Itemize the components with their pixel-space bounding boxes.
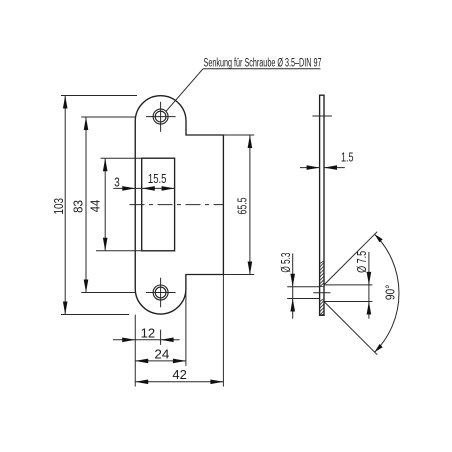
dim 12 extension line (160, 330, 162, 345)
svg-text:Senkung für Schraube Ø 3.5–DIN: Senkung für Schraube Ø 3.5–DIN 97 (204, 58, 322, 70)
dim 15.5 (142, 186, 155, 191)
dim 42 (135, 381, 223, 383)
svg-text:44: 44 (87, 200, 102, 213)
screw hole top (153, 109, 168, 124)
leader underline (203, 68, 321, 70)
right tab edge extension down (185, 275, 187, 366)
dim 103 extension lines (61, 95, 137, 97)
90 deg dimension arc (375, 234, 399, 352)
svg-text:65.5: 65.5 (235, 198, 250, 215)
svg-text:Ø 5.3: Ø 5.3 (278, 253, 293, 273)
svg-text:24: 24 (154, 347, 169, 362)
dim 44 (104, 158, 106, 251)
flange right edge extension down (222, 275, 224, 387)
svg-text:90°: 90° (383, 285, 398, 301)
dashed horizontal centerline (130, 204, 224, 206)
side hole center tick (313, 292, 330, 294)
svg-text:103: 103 (51, 198, 66, 215)
hole lines right (dia 7.5) (324, 284, 372, 286)
svg-text:Ø 7.5: Ø 7.5 (354, 251, 369, 273)
left edge extension down (134, 315, 136, 387)
hatching countersink section (320, 261, 324, 315)
latch cutout (142, 158, 175, 251)
dim dia 7.5 (368, 252, 370, 319)
dim 83 extension lines (81, 116, 135, 118)
svg-text:83: 83 (71, 200, 86, 213)
dim 103 (64, 96, 66, 315)
svg-text:42: 42 (172, 367, 187, 382)
bottom hole centerlines (146, 292, 176, 294)
screw hole bottom (153, 285, 168, 300)
dim 12 (113, 339, 180, 341)
dim dia 5.3 (292, 254, 294, 319)
countersink cone edge upper (324, 232, 377, 285)
dim 1.5 (300, 167, 320, 169)
side view top hole center tick (312, 115, 332, 117)
dim 24 (135, 360, 186, 362)
plate outline (front view) (135, 96, 223, 314)
dim 65.5 extension lines (step edges extended) (223, 134, 254, 136)
svg-text:1.5: 1.5 (341, 150, 354, 165)
svg-text:12: 12 (141, 326, 156, 341)
leader line to top hole (166, 69, 203, 112)
top hole centerlines (146, 116, 176, 118)
dim 44 extension lines (101, 157, 142, 159)
svg-text:15.5: 15.5 (148, 171, 167, 186)
dim 3 (113, 187, 174, 189)
side view plate bar (320, 95, 324, 315)
svg-text:3: 3 (114, 175, 120, 190)
dim 65.5 (249, 135, 251, 275)
dim 83 (85, 117, 87, 293)
countersink cone edge lower (324, 302, 377, 355)
hole lines left (dia 5.3) (287, 286, 319, 288)
